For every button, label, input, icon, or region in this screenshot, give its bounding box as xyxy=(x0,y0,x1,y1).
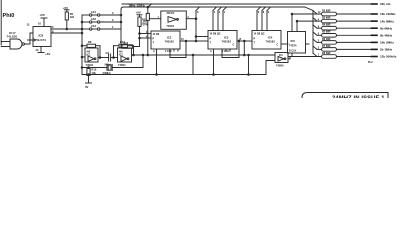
pin 10 preset to +5V xyxy=(43,18,45,27)
svg-text:P: P xyxy=(153,38,155,41)
wire P T feeds IC3 xyxy=(196,36,208,38)
flip-flop IC8 74LS74 xyxy=(33,27,51,47)
svg-text:4: 4 xyxy=(214,11,216,14)
wire Q to node xyxy=(51,32,82,34)
resistor R6 xyxy=(322,41,337,45)
counter IC3 74S163 xyxy=(208,31,237,50)
svg-text:27R: 27R xyxy=(143,23,148,26)
connector labels PL2 xyxy=(368,2,397,64)
wire row 4MHz xyxy=(317,34,322,36)
wire L1 to L2 drop xyxy=(192,55,194,75)
resistor R5 xyxy=(322,34,337,38)
link LK2 xyxy=(82,21,90,23)
resistor R10 bias to ground xyxy=(88,68,90,69)
svg-text:9: 9 xyxy=(258,11,260,14)
counter IC4 74S163 xyxy=(252,31,281,50)
wire IC3 clock drop xyxy=(213,49,215,75)
svg-text:IC4: IC4 xyxy=(268,36,273,40)
svg-text:3/6 IC1: 3/6 IC1 xyxy=(167,12,176,15)
resistor R2 xyxy=(322,12,337,16)
resistor R12 xyxy=(124,42,129,45)
wire IC2 left pins xyxy=(140,33,152,35)
wire 24MHz main line L1 xyxy=(132,54,276,56)
wire row 8MHz xyxy=(297,20,322,22)
svg-text:LK1: LK1 xyxy=(91,10,96,14)
svg-text:14 D8 QC: 14 D8 QC xyxy=(254,33,265,36)
svg-text:1: 1 xyxy=(224,11,226,14)
inverter IC1c xyxy=(161,11,187,29)
svg-text:A: A xyxy=(210,50,212,53)
nand gate U1 xyxy=(10,39,22,49)
link LK3 xyxy=(82,28,90,30)
svg-text:A: A xyxy=(153,50,155,53)
wire 0V rail L2 xyxy=(82,74,266,76)
svg-text:8: 8 xyxy=(263,11,265,14)
resistor R7 xyxy=(322,48,337,52)
svg-text:IC8: IC8 xyxy=(39,34,44,38)
wire gate output to D input xyxy=(24,33,33,44)
resistor R5 pull-up xyxy=(63,6,68,10)
oscillator inverter IC1b xyxy=(118,48,132,62)
resistor R13 feedback over inverter 2 xyxy=(120,40,125,44)
resistor R11 in clock riser xyxy=(147,20,149,55)
svg-text:IC5: IC5 xyxy=(291,39,296,43)
svg-text:10: 10 xyxy=(38,22,41,26)
svg-text:R6 68R: R6 68R xyxy=(322,38,331,41)
svg-text:R3 68R: R3 68R xyxy=(322,17,331,20)
svg-text:1k0: 1k0 xyxy=(70,15,75,19)
flip-flop IC5 xyxy=(288,32,306,54)
svg-text:T: T xyxy=(210,42,212,45)
svg-text:500p: 500p xyxy=(105,62,111,66)
wire IC4 enable path xyxy=(243,41,245,55)
svg-text:IC3: IC3 xyxy=(224,36,229,40)
svg-text:IC1: IC1 xyxy=(279,54,283,57)
svg-text:C: C xyxy=(233,44,235,47)
svg-text:74S04: 74S04 xyxy=(118,63,126,67)
svg-text:+5V: +5V xyxy=(45,52,50,56)
svg-text:8: 8 xyxy=(197,11,199,14)
svg-text:24MHZ IN ISSUE 1: 24MHZ IN ISSUE 1 xyxy=(332,95,385,98)
svg-text:R2 68R: R2 68R xyxy=(322,9,331,12)
wire clock stub xyxy=(28,39,34,41)
resistor R9 feedback xyxy=(88,40,92,44)
resistor R4 xyxy=(322,26,337,30)
svg-text:3: 3 xyxy=(112,11,114,15)
capacitor C3 500p xyxy=(98,57,108,59)
svg-text:Phi0: Phi0 xyxy=(3,13,15,19)
svg-text:14 D8: 14 D8 xyxy=(153,33,160,36)
wire IC3 outputs to bus xyxy=(212,11,214,31)
svg-text:R7 68R: R7 68R xyxy=(322,45,331,48)
svg-text:D CLK: D CLK xyxy=(289,50,297,53)
svg-text:74S163: 74S163 xyxy=(165,40,175,44)
wire Q output pin 9 xyxy=(51,28,82,30)
svg-text:8b 4MHz: 8b 4MHz xyxy=(380,34,393,38)
svg-text:2: 2 xyxy=(112,18,114,22)
ground 0V xyxy=(86,82,92,84)
svg-text:C3: C3 xyxy=(106,51,110,55)
wire row 6MHz xyxy=(317,27,322,29)
svg-text:1: 1 xyxy=(112,25,114,29)
svg-text:74S04: 74S04 xyxy=(86,63,94,67)
wire row 12MHz xyxy=(292,13,322,15)
svg-text:2 CLK: 2 CLK xyxy=(165,50,172,53)
svg-text:12b 500kHz: 12b 500kHz xyxy=(380,55,397,59)
svg-text:13b 12MHz: 13b 12MHz xyxy=(380,12,396,16)
wire row 1MHz xyxy=(317,48,322,50)
wire 24MHz top line A xyxy=(122,3,377,5)
svg-text:LK3: LK3 xyxy=(91,24,96,28)
svg-text:LK2: LK2 xyxy=(91,17,96,21)
link common rail xyxy=(120,10,122,47)
wire IC3 carry out xyxy=(237,40,252,42)
svg-text:+5V: +5V xyxy=(40,13,45,17)
svg-text:6: 6 xyxy=(268,11,270,14)
wire row 2MHz xyxy=(317,41,322,43)
svg-text:16b 2MHz: 16b 2MHz xyxy=(380,41,394,45)
svg-text:0V: 0V xyxy=(85,85,89,89)
wire IC2 loop xyxy=(170,41,186,58)
svg-text:14 D8 QC: 14 D8 QC xyxy=(210,33,221,36)
svg-text:13: 13 xyxy=(36,48,39,52)
svg-text:6b 6MHz: 6b 6MHz xyxy=(380,26,393,30)
svg-text:74S04: 74S04 xyxy=(276,63,284,67)
svg-text:2: 2 xyxy=(219,11,221,14)
svg-text:14b 8MHz: 14b 8MHz xyxy=(380,19,394,23)
svg-text:9: 9 xyxy=(52,25,54,29)
resistor R3 xyxy=(322,19,337,23)
svg-text:74LS74: 74LS74 xyxy=(35,38,46,42)
connector pin dashes xyxy=(372,4,378,57)
svg-text:R5 68R: R5 68R xyxy=(322,31,331,34)
wire gate inputs xyxy=(1,41,10,43)
svg-text:74LS30: 74LS30 xyxy=(7,35,18,39)
svg-text:R13: R13 xyxy=(120,40,125,44)
resistor R21 pull-up xyxy=(136,11,141,15)
pin 13 to +5V xyxy=(40,47,42,53)
svg-text:24b inh: 24b inh xyxy=(380,2,391,6)
wire inverter IC1c input xyxy=(149,18,160,20)
wire IC5 q2 to row xyxy=(296,21,298,31)
nand gate U1 labels xyxy=(7,31,18,39)
svg-text:R9: R9 xyxy=(88,40,92,44)
svg-text:R4 68R: R4 68R xyxy=(322,24,331,27)
svg-text:74S163: 74S163 xyxy=(222,40,232,44)
svg-text:P: P xyxy=(254,38,256,41)
svg-text:IC2: IC2 xyxy=(167,36,172,40)
wire IC4 carry out xyxy=(281,43,288,45)
counter IC2 74S163 xyxy=(151,31,180,49)
link LK1 xyxy=(82,14,90,16)
wire IC2 clock drop xyxy=(156,49,158,75)
wire riser to bus xyxy=(195,11,197,42)
svg-text:+5V: +5V xyxy=(136,11,141,15)
wire IC3 loop xyxy=(222,41,239,58)
svg-text:R10: R10 xyxy=(92,68,97,72)
wire IC5 q1 to row xyxy=(291,14,293,32)
oscillator inverter IC1a xyxy=(85,48,98,62)
node vertical feed to links and oscillator xyxy=(81,15,83,75)
resistor R8 xyxy=(322,55,337,59)
svg-text:74S04: 74S04 xyxy=(166,24,174,28)
wire IC2 carry out xyxy=(180,40,196,42)
crystal X1 24MHz xyxy=(82,67,107,69)
title box next section xyxy=(302,93,388,99)
svg-text:74S74: 74S74 xyxy=(289,44,297,48)
inverter IC1f xyxy=(275,53,288,63)
wire row 500kHz xyxy=(288,56,322,58)
svg-text:P: P xyxy=(210,38,212,41)
svg-text:74S163: 74S163 xyxy=(266,40,276,44)
bus vertical xyxy=(312,11,314,54)
svg-text:R8 68R: R8 68R xyxy=(322,52,331,55)
node Phi0 xyxy=(3,13,15,19)
svg-text:2b 1MHz: 2b 1MHz xyxy=(380,48,393,52)
svg-text:T: T xyxy=(254,42,256,45)
wire IC4 outputs to bus xyxy=(256,11,258,31)
svg-text:C: C xyxy=(277,44,279,47)
page border left xyxy=(0,0,2,45)
wire inverter IC1c output xyxy=(186,18,196,20)
section outline 1MHz-12MHz xyxy=(121,7,305,10)
svg-text:T: T xyxy=(153,42,155,45)
bus entry rail to vertical bus xyxy=(305,7,313,11)
svg-text:PL2: PL2 xyxy=(368,61,373,64)
wire into inverter xyxy=(82,56,85,58)
svg-text:12: 12 xyxy=(27,23,30,27)
